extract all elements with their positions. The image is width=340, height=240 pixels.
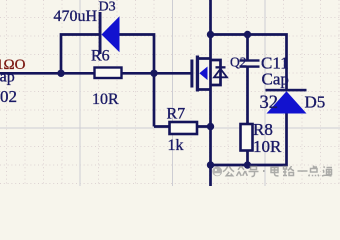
svg-text:10R: 10R: [92, 91, 119, 108]
svg-text:102: 102: [0, 87, 17, 106]
svg-text:D3: D3: [99, 0, 116, 15]
svg-text:R7: R7: [167, 106, 186, 123]
svg-text:1k: 1k: [168, 137, 184, 154]
svg-text:Cap: Cap: [262, 70, 289, 89]
svg-text:R6: R6: [91, 48, 110, 65]
svg-text:1ΩO: 1ΩO: [0, 57, 26, 73]
svg-text:Q2: Q2: [230, 55, 247, 70]
svg-text:32: 32: [260, 93, 279, 113]
svg-text:10R: 10R: [253, 137, 282, 156]
svg-text:D5: D5: [305, 93, 326, 112]
svg-text:470uH: 470uH: [54, 8, 98, 25]
